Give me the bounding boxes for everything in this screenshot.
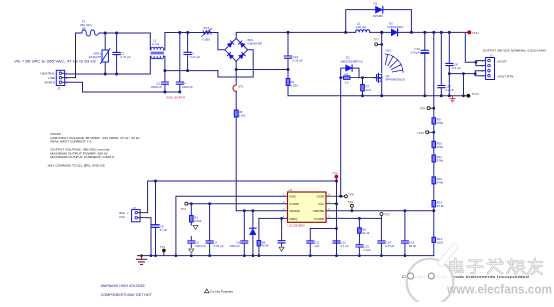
svg-text:GND_EARTH: GND_EARTH xyxy=(166,96,185,100)
svg-text:Do Not Populate: Do Not Populate xyxy=(211,290,234,294)
svg-text:J3: J3 xyxy=(133,206,137,210)
svg-text:TP10: TP10 xyxy=(417,131,425,135)
svg-text:32.4k: 32.4k xyxy=(262,244,270,248)
junction return/R7 xyxy=(361,94,364,97)
op-amp U1 UCC28180D xyxy=(288,188,327,227)
INPUT-SECTION xyxy=(14,20,346,211)
junction VSENSE/C15 xyxy=(404,209,407,212)
svg-text:10.0: 10.0 xyxy=(366,88,372,92)
svg-text:TP11: TP11 xyxy=(472,31,479,35)
svg-text:MAXIMUM OUTPUT CURRENT: 0.923: MAXIMUM OUTPUT CURRENT: 0.923 A xyxy=(50,155,114,159)
wire VSENSE pin6 xyxy=(326,210,434,212)
zener D1 MMSZ5248BT1G xyxy=(341,56,364,78)
svg-text:RT1: RT1 xyxy=(204,26,210,30)
svg-text:COMPONENTS MAY GET HOT: COMPONENTS MAY GET HOT xyxy=(101,293,152,297)
WATERMARK xyxy=(407,247,552,305)
svg-text:976k: 976k xyxy=(437,145,444,149)
junction GATE/riser xyxy=(339,195,342,198)
junction fuse rail / C1 xyxy=(115,32,118,35)
svg-text:0.33 µF: 0.33 µF xyxy=(293,59,303,63)
svg-text:NEUTRAL: NEUTRAL xyxy=(41,71,56,75)
svg-text:976k: 976k xyxy=(437,181,444,185)
capacitor C5 xyxy=(278,218,285,246)
svg-text:UCC28180D: UCC28180D xyxy=(288,223,306,227)
svg-text:32.4k: 32.4k xyxy=(362,231,370,235)
wire FREQ pin4 xyxy=(259,217,288,219)
resistor R14 102k xyxy=(432,211,444,256)
svg-text:3.3: 3.3 xyxy=(345,81,349,85)
svg-text:PEAK INPUT CURRENT: 7 A: PEAK INPUT CURRENT: 7 A xyxy=(50,140,91,144)
junction VCOMP/R6 xyxy=(358,217,361,220)
wire J3 pin1 to VCC rail xyxy=(138,212,148,214)
capacitor C10 xyxy=(284,31,303,70)
test point TP3 xyxy=(160,245,166,256)
svg-text:IPP60R190C6: IPP60R190C6 xyxy=(386,78,406,82)
wire AC2 jog to bridge right xyxy=(218,50,253,77)
capacitor C2 Y-cap xyxy=(151,71,168,92)
test point TP8 xyxy=(341,193,354,198)
test point TP11 xyxy=(467,30,479,35)
wire ISENSE pin3 xyxy=(236,210,287,212)
svg-text:TP12: TP12 xyxy=(472,92,480,96)
wire ICOMP pin2 xyxy=(188,203,288,205)
junction FREQ/C5 xyxy=(280,217,283,220)
svg-text:0.033: 0.033 xyxy=(291,84,299,88)
ground AGND triangle under R1 xyxy=(193,225,198,229)
junction bottom rail / C2 xyxy=(163,69,166,72)
capacitor C12 0.1uF xyxy=(333,240,349,247)
common-mode choke L1 2mH xyxy=(151,39,164,59)
svg-text:8.06k: 8.06k xyxy=(194,219,202,223)
test point TP5 xyxy=(380,212,390,218)
svg-text:1µF: 1µF xyxy=(314,244,319,248)
svg-text:TP7: TP7 xyxy=(374,37,380,41)
feedback divider riser xyxy=(433,32,435,117)
fuse F1 xyxy=(76,20,106,37)
diode D2 1N5406 bypass loop xyxy=(344,2,413,34)
capacitor C6 3300pF xyxy=(188,237,206,248)
svg-text:68 pF: 68 pF xyxy=(409,244,417,248)
wire J3 pin2 to ground rail xyxy=(138,217,152,219)
junction ISENSE/C8 xyxy=(243,209,246,212)
svg-text:270 µF: 270 µF xyxy=(411,51,421,55)
wire GATE pin8 to riser xyxy=(326,195,341,197)
capacitor C14 0.47uF xyxy=(378,218,395,255)
pin number labels U1 xyxy=(283,193,331,218)
test point TP4 xyxy=(332,172,338,181)
test point TP9 xyxy=(347,200,353,212)
svg-text:3300 pF: 3300 pF xyxy=(195,244,206,248)
svg-text:0.021: 0.021 xyxy=(239,113,247,117)
capacitor C13 4.7uF xyxy=(356,233,371,255)
junction VCC/riser xyxy=(335,202,338,205)
svg-text:HS1: HS1 xyxy=(386,48,392,52)
do-not-populate note xyxy=(205,289,234,294)
transistor Q1 MOSFET xyxy=(374,32,405,95)
svg-text:TP8: TP8 xyxy=(348,193,354,197)
svg-text:ISENSE: ISENSE xyxy=(289,209,300,213)
resistor R12 976k xyxy=(432,162,444,185)
svg-text:47 µF: 47 µF xyxy=(160,228,168,232)
capacitor C11 1uF xyxy=(307,229,320,256)
resistor R5 32.4k xyxy=(257,218,269,255)
resistor R9 976k xyxy=(432,118,444,133)
svg-text:U1: U1 xyxy=(289,188,293,192)
svg-text:0.1 µF: 0.1 µF xyxy=(341,244,349,248)
junction drain tap xyxy=(380,31,383,34)
junction top rail / C3 xyxy=(186,31,189,34)
ground AGND triangle under C5 xyxy=(279,247,284,251)
svg-text:0.1 µF: 0.1 µF xyxy=(452,66,461,70)
capacitor C3 xyxy=(184,33,200,71)
wire VOUT RTN to return rail xyxy=(449,74,475,96)
svg-text:MMSZ5248BT1G: MMSZ5248BT1G xyxy=(341,59,364,63)
wire +VOUT feed to J2 xyxy=(465,32,476,62)
junction earth rail / C2 xyxy=(163,91,166,94)
connector J3 bias xyxy=(119,206,140,222)
svg-text:0.850: 0.850 xyxy=(203,38,211,42)
resistor R4 0.033 xyxy=(286,70,298,96)
capacitor C9 47uF xyxy=(152,181,167,256)
ground red PE symbol at output xyxy=(450,96,455,102)
wire VCOMP pin5 xyxy=(326,217,381,219)
wire L1 bottom right to rail xyxy=(164,56,218,70)
junction VCC rail corner xyxy=(335,180,338,183)
svg-text:www.elecfans.com: www.elecfans.com xyxy=(446,282,552,297)
capacitor C7 0.33uF xyxy=(206,204,224,256)
svg-text:VCC: VCC xyxy=(119,215,125,219)
svg-text:2 mH: 2 mH xyxy=(152,42,159,46)
wire RT1 to bridge AC1 xyxy=(211,33,225,50)
svg-text:VSENSE: VSENSE xyxy=(313,209,325,213)
test point TP7 xyxy=(374,37,384,46)
junction ICOMP/R1 xyxy=(190,202,193,205)
svg-text:976k: 976k xyxy=(437,121,444,125)
wire VCC pin7 xyxy=(326,203,337,205)
svg-text:1000 pF: 1000 pF xyxy=(229,244,240,248)
svg-text:Vin = 85 VAC to 265 VAC, 47 Hz: Vin = 85 VAC to 265 VAC, 47 Hz to 63 Hz xyxy=(14,60,97,64)
svg-text:FREQ: FREQ xyxy=(289,217,298,221)
svg-text:TP5: TP5 xyxy=(384,212,390,216)
junction NEUTRAL/C1 xyxy=(115,73,118,76)
capacitor C8 1000pF xyxy=(229,211,247,256)
svg-text:TP3: TP3 xyxy=(160,245,166,249)
svg-text:GATE: GATE xyxy=(317,195,325,199)
warning text xyxy=(101,284,152,297)
test point TP2 xyxy=(181,202,188,211)
svg-text:2200 pF: 2200 pF xyxy=(182,85,193,89)
test point TP6 xyxy=(420,107,436,111)
svg-text:VOUT RTN: VOUT RTN xyxy=(498,75,514,79)
svg-text:0.47µF: 0.47µF xyxy=(385,244,394,248)
resistor R10 976k xyxy=(432,132,444,149)
wire return rail to C10 xyxy=(236,69,288,71)
resistor R6 32.4k xyxy=(358,218,370,235)
svg-text:J1: J1 xyxy=(57,87,61,91)
wire gate drive riser xyxy=(340,78,342,197)
svg-text:220 µH: 220 µH xyxy=(356,25,366,29)
svg-text:97.6k: 97.6k xyxy=(437,204,445,208)
diode D3 xyxy=(250,211,256,256)
inductor L2 220uH xyxy=(356,22,370,33)
wire C11 branch xyxy=(310,228,336,230)
junction bridge minus node xyxy=(235,68,238,71)
svg-text:LINE: LINE xyxy=(48,76,55,80)
svg-text:GND: GND xyxy=(289,195,295,199)
VCC rail xyxy=(148,181,337,256)
resistor R13 97.6k xyxy=(432,184,444,211)
thermistor RT1 xyxy=(202,26,212,42)
svg-text:R3: R3 xyxy=(345,72,349,76)
svg-text:TP6: TP6 xyxy=(420,107,426,111)
junction fuse rail / VAR1 xyxy=(104,32,107,35)
svg-text:+: + xyxy=(127,211,129,215)
capacitor C18 0.1uF xyxy=(446,31,461,74)
connector J2 xyxy=(482,54,495,80)
CONTROL-SECTION xyxy=(119,172,434,265)
junction return rail / C10 xyxy=(287,68,290,71)
wire NEUTRAL rail xyxy=(62,56,150,74)
capacitor C4 Y-cap xyxy=(176,33,193,93)
svg-text:EARTH: EARTH xyxy=(45,80,55,84)
svg-text:J2: J2 xyxy=(490,54,494,58)
ground earth symbol left xyxy=(137,256,147,265)
OUTPUT-SECTION xyxy=(288,2,546,256)
capacitor C1 xyxy=(113,33,131,74)
junction dots on ground rail xyxy=(140,254,406,257)
svg-text:VCC: VCC xyxy=(318,202,324,206)
wire output return rail xyxy=(288,95,468,97)
svg-text:D2: D2 xyxy=(374,2,378,6)
svg-text:0.33 µF: 0.33 µF xyxy=(214,244,224,248)
svg-text:HS1 COMMON TO Q1, BR1, AND D5: HS1 COMMON TO Q1, BR1, AND D5 xyxy=(48,163,105,167)
svg-text:0.47 µF: 0.47 µF xyxy=(190,55,200,59)
svg-text:S14K275: S14K275 xyxy=(89,55,102,59)
jumper JP1 xyxy=(233,70,243,111)
resistor R11 976k xyxy=(432,148,444,163)
svg-text:102k: 102k xyxy=(437,240,444,244)
svg-text:0.47 µF: 0.47 µF xyxy=(121,55,131,59)
junction NEUTRAL/VAR1 xyxy=(104,73,107,76)
svg-text:WARNING! HIGH VOLTAGE: WARNING! HIGH VOLTAGE xyxy=(101,284,146,288)
resistor R7 10.0 xyxy=(361,78,372,96)
ground AGND triangle under C6 xyxy=(189,249,194,253)
svg-text:JP1: JP1 xyxy=(238,85,243,89)
capacitor C15 68pF xyxy=(401,211,416,256)
bottom ground rail xyxy=(138,255,434,257)
svg-text:ICOMP: ICOMP xyxy=(289,202,299,206)
wire bridge plus to top rail xyxy=(236,32,346,38)
svg-text:TP2: TP2 xyxy=(181,207,187,211)
svg-text:1N5406: 1N5406 xyxy=(373,14,384,18)
wire J2 return pin bus xyxy=(475,71,485,76)
svg-text:GBU8J-BP: GBU8J-BP xyxy=(248,42,263,46)
wire LINE pin2 to fuse xyxy=(62,33,76,78)
junction divider/VSENSE xyxy=(432,209,435,212)
svg-text:VCOMP: VCOMP xyxy=(314,217,325,221)
resistor R3 3.3 gate xyxy=(339,72,379,84)
svg-text:C3D04060A: C3D04060A xyxy=(387,25,403,29)
junction VCC rail / C9 xyxy=(154,180,157,183)
junction bottom rail / C3 xyxy=(186,69,189,72)
diode D5 C3D04060A boost diode xyxy=(387,22,403,36)
wire L1 top right to rail xyxy=(164,33,218,50)
svg-text:0.1 µF: 0.1 µF xyxy=(446,88,455,92)
junction top rail / C4 xyxy=(178,31,181,34)
junction ICOMP/C7 xyxy=(208,202,211,205)
heatsink HS1 xyxy=(385,48,403,72)
svg-text:2200 pF: 2200 pF xyxy=(151,85,162,89)
svg-text:TP9: TP9 xyxy=(347,200,353,204)
junction earth rail / C4 xyxy=(178,91,181,94)
test point TP10 xyxy=(417,131,435,135)
wire boost top rail xyxy=(346,31,470,33)
wire top rail after fuse xyxy=(105,33,150,50)
svg-text:8A: 8A xyxy=(82,27,86,31)
connector J1 xyxy=(56,70,68,90)
wire bridge minus down xyxy=(235,61,237,69)
svg-text:976k: 976k xyxy=(437,159,444,163)
resistor R8 0.021 shunt xyxy=(234,110,246,211)
varistor VAR1 S14K275 xyxy=(89,33,110,74)
wire EARTH pin3 to Y-caps xyxy=(62,82,180,92)
svg-text:OUTPUT 390 VDC NOMINAL, 0.923: OUTPUT 390 VDC NOMINAL, 0.923 A MAX xyxy=(483,48,547,52)
NOTES-TEXT xyxy=(48,132,141,168)
svg-text:4.7µF: 4.7µF xyxy=(363,248,371,252)
svg-text:+VOUT: +VOUT xyxy=(497,60,508,64)
junction return/Q1 source xyxy=(380,94,383,97)
capacitor C17 0.1uF xyxy=(438,31,454,97)
wire J2 plus pin bus xyxy=(476,61,486,66)
bridge rectifier BR1 GBU8J-BP xyxy=(225,38,262,61)
capacitor C16 270uF bulk xyxy=(411,31,429,97)
test point TP12 xyxy=(467,92,480,98)
resistor R1 8.06k xyxy=(190,204,202,225)
junction ISENSE/D3 xyxy=(252,209,255,212)
wire GND pin1 xyxy=(176,196,288,255)
